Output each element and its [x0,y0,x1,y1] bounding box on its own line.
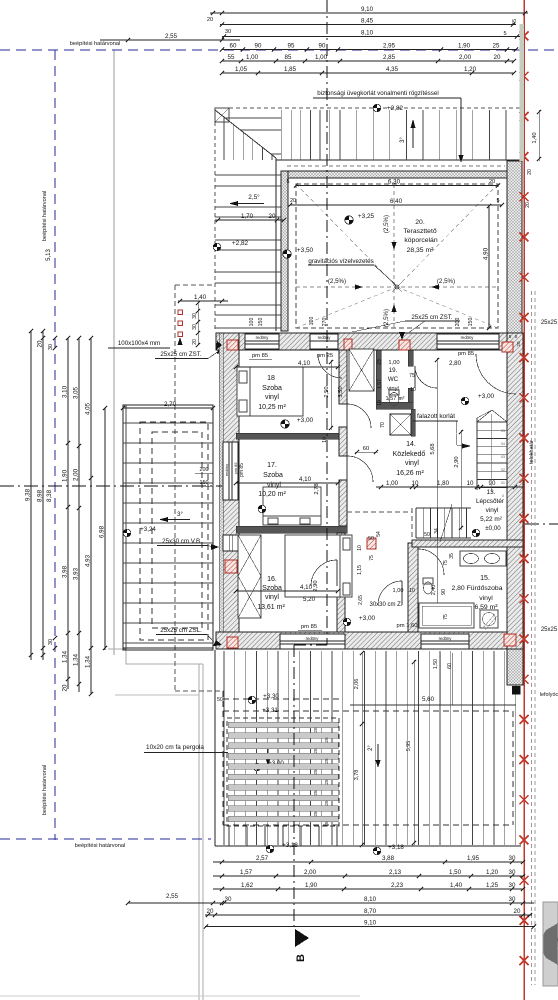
left dim line 3,10 1,90 3,98 1,34 [67,338,69,689]
terrace dim 6,30 [296,185,498,187]
svg-text:3,88: 3,88 [382,855,395,862]
svg-text:20: 20 [489,179,495,185]
svg-text:10,25 m²: 10,25 m² [258,404,286,411]
svg-text:1,90: 1,90 [62,469,69,482]
drain arrow top wall [399,332,405,340]
svg-text:5,20: 5,20 [303,596,316,603]
svg-text:Közlekedő: Közlekedő [393,451,426,458]
svg-text:1,40: 1,40 [194,294,207,301]
svg-text:8,70: 8,70 [364,908,377,915]
svg-text:25x25 cm ZST.: 25x25 cm ZST. [411,314,453,321]
svg-text:90: 90 [489,480,496,487]
svg-text:4,35: 4,35 [386,66,399,73]
dim 1,40 right [538,110,540,161]
terrace inner dashed rectangle [296,184,498,328]
stair winders [477,410,492,422]
svg-text:25x30 cm V.B.: 25x30 cm V.B. [162,538,202,545]
bathroom west wall [408,543,418,632]
svg-text:5,68: 5,68 [430,443,436,454]
svg-text:1,20: 1,20 [486,869,499,876]
svg-text:köporcelán: köporcelán [404,237,437,244]
svg-text:WC: WC [388,376,399,383]
bottom dim chain 257-388-195-30 [213,861,523,863]
svg-text:pm 85: pm 85 [239,463,245,477]
svg-text:13,61 m²: 13,61 m² [257,604,285,611]
red column bottom-right [504,634,516,646]
svg-text:17.: 17. [267,462,277,469]
svg-text:9,38: 9,38 [25,488,32,501]
svg-text:4,93: 4,93 [85,554,92,567]
room 18 bed [237,367,303,416]
svg-text:vinyl: vinyl [265,594,279,601]
svg-text:1,50: 1,50 [433,659,439,669]
svg-text:2,55: 2,55 [166,893,179,900]
svg-text:10: 10 [412,480,419,487]
section line B jog [294,644,327,646]
red X marks [520,32,529,41]
svg-text:pm 1,60: pm 1,60 [397,623,418,629]
svg-text:01: 01 [501,481,505,485]
svg-text:30: 30 [48,344,54,350]
svg-text:5,13: 5,13 [46,249,52,261]
svg-text:10,20 m²: 10,20 m² [258,491,286,498]
building boundary line left blue dashed [54,50,56,840]
svg-text:1,34: 1,34 [73,653,80,666]
svg-text:10: 10 [409,588,415,594]
svg-text:25x25: 25x25 [541,627,558,633]
bottom dim chain 162-190-223-140-125-30 [213,888,523,890]
WC fixture [389,393,399,406]
corridor west wall upper [339,350,347,404]
stair entry door arc [476,354,516,394]
corridor door arc near bath [378,581,402,605]
post dims 30 30 20 [197,303,199,345]
svg-text:20: 20 [525,202,531,208]
svg-text:25x25 cm ZSL.: 25x25 cm ZSL. [160,627,202,634]
balcony dim 2,70 [123,407,213,409]
svg-text:1,34: 1,34 [62,650,69,663]
svg-text:redöny: redöny [318,335,332,340]
svg-text:16.: 16. [267,576,277,583]
section marker B triangle [295,929,309,947]
svg-text:2,95: 2,95 [383,43,396,50]
svg-text:6,98: 6,98 [99,525,106,538]
svg-text:10: 10 [377,400,383,406]
window top room18 [245,334,279,349]
red column top-right [502,342,513,352]
telekhatar dashed gray lines [531,291,533,985]
room 16 closet [238,535,261,618]
svg-text:2,80 Fürdőszoba: 2,80 Fürdőszoba [451,585,502,592]
washing machine [480,610,498,628]
svg-text:25: 25 [493,43,500,50]
svg-text:+3,18: +3,18 [282,842,298,849]
svg-text:10: 10 [467,480,474,487]
svg-text:2,06: 2,06 [354,679,360,690]
svg-text:1,90: 1,90 [305,882,318,889]
svg-text:100: 100 [249,318,255,327]
svg-text:+3,25: +3,25 [358,213,375,220]
svg-text:50: 50 [424,532,430,538]
svg-text:+2,82: +2,82 [387,105,404,112]
room 16 dims [236,590,338,592]
svg-text:8,10: 8,10 [364,896,377,903]
upper roof right edge [520,108,522,160]
svg-text:20: 20 [514,908,521,915]
site centerline horizontal [0,485,222,487]
svg-text:14.: 14. [406,441,416,448]
svg-text:1,57: 1,57 [377,379,383,389]
top dim chain 105-185-435-120 [222,72,514,74]
bottom dim chain 157-200-213-150-120-30 [213,875,523,877]
svg-text:2,90: 2,90 [313,580,319,591]
terrace slope diagonals dashed [296,184,397,287]
window bottom bath [421,634,469,649]
gray-green band top right [520,24,525,161]
compass image box [543,902,558,986]
svg-text:8,45: 8,45 [361,18,374,25]
svg-text:75: 75 [443,560,449,566]
svg-text:8,98: 8,98 [37,489,44,502]
bath door arc [418,549,444,575]
garden path gray polyline [108,649,203,664]
window top stair [437,334,499,349]
svg-text:Lépcsőtér: Lépcsőtér [476,498,505,505]
left dim line 9,38 [30,331,32,660]
svg-text:10: 10 [357,545,363,551]
svg-text:1,95: 1,95 [467,855,480,862]
lower roof dashed rect outer [223,710,513,712]
svg-text:90: 90 [255,43,262,50]
svg-text:beépítési határvonal: beépítési határvonal [70,41,120,47]
svg-text:1,05: 1,05 [235,66,248,73]
terrace level +3,50 [283,250,291,258]
shaft below WC [390,414,411,435]
svg-text:redöny: redöny [224,464,229,476]
svg-text:1,80: 1,80 [437,480,450,487]
svg-text:2,5°: 2,5° [248,193,260,201]
dashed overhang boundary horizontal [175,284,215,286]
svg-text:25: 25 [324,800,329,806]
window top corridor small [310,334,338,349]
svg-text:beépítési határvonal: beépítési határvonal [42,765,48,815]
terrace parapet wall top [287,171,507,178]
svg-text:20: 20 [192,339,198,345]
balcony dashed rect inner [152,432,202,628]
svg-text:25: 25 [313,727,318,733]
red column top-mid [399,340,410,350]
pergola posts [228,826,230,846]
svg-text:2,40: 2,40 [431,585,437,596]
svg-text:75: 75 [443,614,449,620]
left roof dim 1,70 20 [215,219,284,221]
upper roof vertical stripes [223,117,225,160]
svg-text:55: 55 [228,54,235,61]
svg-text:1,62: 1,62 [241,882,254,889]
terrace railing dashed line on eave [287,165,505,167]
svg-text:20: 20 [207,17,213,23]
svg-text:3,50: 3,50 [338,386,344,397]
svg-text:20.: 20. [415,219,425,226]
stair lower flight break line [440,504,452,542]
upper roof hip diagonal [215,110,276,158]
svg-text:1,40: 1,40 [532,132,538,143]
levels on lower roof [248,696,256,704]
room 18 door arc to corridor [347,404,371,428]
svg-text:30x30 cm Z.: 30x30 cm Z. [369,602,402,608]
room 16 door arc [311,560,337,586]
svg-text:5,95: 5,95 [406,741,412,752]
WC south wall [376,402,413,409]
corridor level +3,00 [461,397,469,405]
top dim chain 8,45 [220,24,516,26]
svg-text:B: B [295,954,307,962]
svg-text:Szoba: Szoba [263,472,283,479]
svg-text:5,60: 5,60 [422,696,435,703]
svg-text:1,70: 1,70 [241,213,254,220]
svg-text:25: 25 [324,758,329,764]
svg-text:vinyl: vinyl [486,507,499,514]
svg-text:25x25: 25x25 [541,320,558,326]
svg-text:04: 04 [501,442,505,446]
corridor west wall mid [339,427,347,456]
window left wall [223,442,238,500]
svg-text:3°: 3° [177,511,183,518]
stair lower flight [415,508,417,538]
svg-text:+3,30: +3,30 [263,693,279,700]
upper roof left column horizontal plank lines [225,117,281,119]
post arrow [178,337,183,345]
svg-text:pm 85: pm 85 [252,353,268,359]
svg-text:34: 34 [434,528,440,534]
svg-text:+3,00: +3,00 [359,615,376,622]
svg-text:lefolyóc: lefolyóc [540,692,558,698]
room 16 bed [285,535,352,597]
svg-text:2,57: 2,57 [256,855,269,862]
terrace dim 4,90 vertical [488,206,490,328]
svg-text:+3,31: +3,31 [262,707,278,714]
svg-text:18: 18 [267,375,275,382]
svg-text:3,05: 3,05 [73,386,80,399]
window bottom room16 [280,634,345,649]
top dim chain 55-100-85-100-285-200-20 [222,60,514,62]
svg-text:4,90: 4,90 [483,247,490,260]
svg-text:50: 50 [217,697,223,703]
garden step gray line [115,694,199,696]
svg-text:3,10: 3,10 [62,385,69,398]
balcony deck lines [123,422,213,424]
svg-text:4,05: 4,05 [85,402,92,415]
room 16 level +3,00 [343,618,351,626]
balcony dashed rect outer [140,422,208,640]
svg-text:30: 30 [48,639,54,645]
terrace slope vertical dashed centerline [393,184,395,328]
svg-text:54: 54 [376,531,382,537]
floor right exterior wall overlay [507,333,523,649]
balcony outline [123,405,213,650]
svg-text:60: 60 [230,43,237,50]
svg-text:90: 90 [441,589,447,595]
svg-text:3,98: 3,98 [62,565,69,578]
terrace slope horizontal dashed centerline [296,286,498,288]
svg-text:60: 60 [363,446,369,452]
svg-text:19.: 19. [389,367,398,374]
svg-text:3,78: 3,78 [354,770,360,781]
red column bath north-west [367,538,376,549]
svg-text:2,13: 2,13 [389,869,402,876]
svg-text:pm 85: pm 85 [458,351,474,357]
room 18 dim 4,10 [236,366,338,368]
balcony double edge lines [125,405,127,650]
left dim line 4,05 4,93 1,34 [90,338,92,694]
window left wall room16 [223,535,238,551]
svg-text:redöny: redöny [439,636,453,641]
terrace door arc [318,354,342,378]
faint bottom gray line [0,995,360,997]
svg-text:+3,18: +3,18 [388,844,404,851]
floor top exterior wall [216,333,523,350]
svg-text:30: 30 [192,313,198,319]
terrace level +3,25 [345,216,353,224]
room 18 closet [349,349,374,391]
svg-text:30: 30 [509,882,516,889]
svg-text:+3,50: +3,50 [297,247,314,254]
svg-text:150: 150 [200,480,209,486]
svg-text:1,20: 1,20 [464,66,477,73]
svg-text:+3,24: +3,24 [140,526,156,533]
svg-text:25: 25 [313,790,318,796]
svg-text:2,00: 2,00 [73,468,80,481]
red survey line vertical [523,0,525,1000]
svg-text:1,00: 1,00 [386,480,399,487]
WC door arc [415,366,437,388]
svg-text:±0,00: ±0,00 [485,525,501,532]
svg-text:8,10: 8,10 [361,30,374,37]
WC east wall [408,350,413,366]
pergola slats [228,722,338,728]
svg-text:telekhatár: telekhatár [529,440,535,464]
left dim line 20 8,98 [42,331,44,660]
wall between room17 and room16 [236,526,347,533]
svg-text:2°: 2° [368,745,374,751]
lower roof bottom edge [215,845,521,847]
svg-text:28,35 m²: 28,35 m² [407,247,435,254]
left dim line 30 8,38 30 [53,336,57,340]
svg-text:30: 30 [225,29,231,35]
svg-text:25: 25 [324,779,329,785]
svg-text:150: 150 [258,318,264,327]
svg-text:vinyl: vinyl [405,460,419,467]
room 18 dim 2,50 rot [330,360,332,430]
corridor dim 2,90 rot [460,430,462,530]
svg-text:Szoba: Szoba [262,385,282,392]
bottom dim chain 30-810-30 [128,902,534,904]
room 17 dim 4,10 [236,482,338,484]
corridor dim chain 1,00 10 1,80 10 90 [376,486,523,488]
svg-text:20: 20 [269,213,276,220]
svg-text:vinyl: vinyl [479,595,493,602]
top dim chain 8,10 [222,36,520,38]
stair level 0,00 [472,529,480,537]
svg-text:(2,5%): (2,5%) [328,278,346,285]
svg-text:6,30: 6,30 [388,179,401,186]
svg-text:95: 95 [288,43,295,50]
svg-text:05: 05 [501,429,505,433]
red column left-mid VB [225,560,237,573]
svg-text:5: 5 [503,31,506,37]
svg-text:25: 25 [313,811,318,817]
corridor west wall lower [337,533,345,560]
svg-text:2,65: 2,65 [358,595,364,605]
stair walk line [490,414,492,492]
svg-text:Teraszttető: Teraszttető [403,228,436,235]
svg-text:1,57 m²: 1,57 m² [386,396,405,402]
svg-text:30: 30 [509,869,516,876]
svg-text:3°: 3° [400,137,406,143]
svg-text:(2,5%): (2,5%) [383,215,390,233]
svg-text:redöny: redöny [306,636,320,641]
floor bottom exterior wall [216,632,523,649]
svg-text:2,90: 2,90 [454,456,460,467]
svg-text:50: 50 [368,536,374,542]
svg-text:30: 30 [509,855,516,862]
svg-text:100: 100 [309,317,315,326]
svg-text:redöny: redöny [256,335,270,340]
terrace slope arrows [355,285,363,290]
svg-text:20: 20 [527,169,533,175]
svg-text:200: 200 [200,467,209,473]
svg-text:2,70: 2,70 [164,401,177,408]
red column top-left [227,340,238,350]
svg-text:10x20 cm fa pergola: 10x20 cm fa pergola [146,744,204,751]
floor left exterior wall [222,333,239,649]
svg-text:pm 85: pm 85 [233,462,238,474]
svg-text:4,10: 4,10 [299,476,312,483]
svg-text:75: 75 [409,373,415,379]
bath tub [419,603,474,628]
svg-text:90: 90 [319,43,326,50]
terrace center cross [392,282,402,292]
pergola arrow down [267,745,269,760]
svg-text:3,93: 3,93 [73,567,80,580]
site centerline right short [525,523,558,525]
svg-text:30: 30 [225,896,232,903]
svg-text:150: 150 [468,318,474,327]
svg-text:2,80: 2,80 [449,360,462,367]
stairwell treads [477,421,507,423]
room 18 level +3,00 [281,420,289,428]
upper roof boundary dashed [215,107,521,109]
stair headroom dashed line [347,511,412,513]
terrace dim 6,40 [290,204,502,206]
svg-text:5: 5 [515,334,518,339]
section line B vertical upper [326,0,328,645]
svg-text:beépítési határvonal: beépítési határvonal [42,191,48,241]
terrace parapet wall left [281,171,288,331]
drain square lefolyo [512,686,520,694]
svg-text:6,40: 6,40 [390,198,403,205]
svg-text:20: 20 [494,54,501,61]
svg-text:1,25: 1,25 [486,882,499,889]
svg-text:5: 5 [509,334,512,339]
balcony level +3,24 [123,529,131,537]
svg-text:5: 5 [286,179,289,185]
left dim line 6,98 [104,408,106,650]
bottom dim chain 20-870-20 [205,914,532,916]
WC west wall [376,350,381,409]
svg-text:1,57: 1,57 [240,869,253,876]
room 17 level [258,505,266,513]
